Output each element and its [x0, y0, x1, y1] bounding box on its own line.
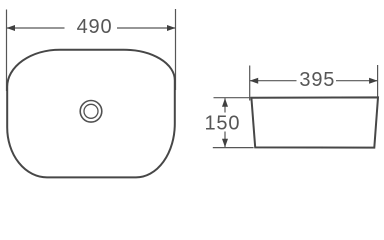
- extension line left (490 dim): [6, 10, 8, 92]
- arrowhead 395 right: [369, 78, 378, 84]
- label 490: [77, 16, 113, 38]
- dimension line 490: [7, 27, 176, 29]
- extension line right (395 dim): [377, 65, 379, 97]
- arrowhead 490 right: [167, 25, 176, 31]
- extension line left (395 dim): [249, 66, 251, 101]
- basin side view outline: [251, 97, 378, 147]
- extension line right (490 dim): [175, 9, 177, 90]
- drain inner circle: [84, 104, 98, 118]
- extension line bottom (150 dim): [213, 147, 254, 149]
- label 395: [299, 69, 335, 91]
- arrowhead 150 up: [222, 98, 228, 107]
- drain outer circle: [80, 101, 102, 123]
- extension line top (150 dim): [214, 97, 252, 99]
- arrowhead 490 left: [7, 25, 16, 31]
- svg-text:490: 490: [77, 16, 113, 38]
- dimension line 395: [250, 80, 378, 82]
- arrowhead 395 left: [250, 78, 259, 84]
- label 150: [205, 113, 241, 135]
- svg-text:150: 150: [205, 113, 241, 135]
- basin top view outline: [7, 50, 175, 178]
- arrowhead 150 down: [222, 139, 228, 148]
- svg-text:395: 395: [299, 69, 335, 91]
- dimension line 150: [224, 98, 226, 147]
